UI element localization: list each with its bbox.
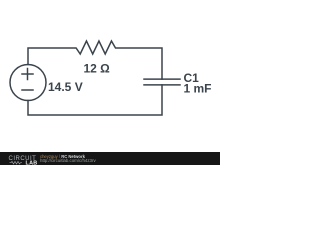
svg-text:12 Ω: 12 Ω	[84, 62, 111, 76]
svg-text:LAB: LAB	[26, 161, 38, 166]
svg-text:http://circuitlab.com/c/h4z3rv: http://circuitlab.com/c/h4z3rv	[40, 158, 96, 163]
svg-text:1 mF: 1 mF	[184, 82, 212, 96]
svg-text:14.5 V: 14.5 V	[48, 80, 83, 94]
